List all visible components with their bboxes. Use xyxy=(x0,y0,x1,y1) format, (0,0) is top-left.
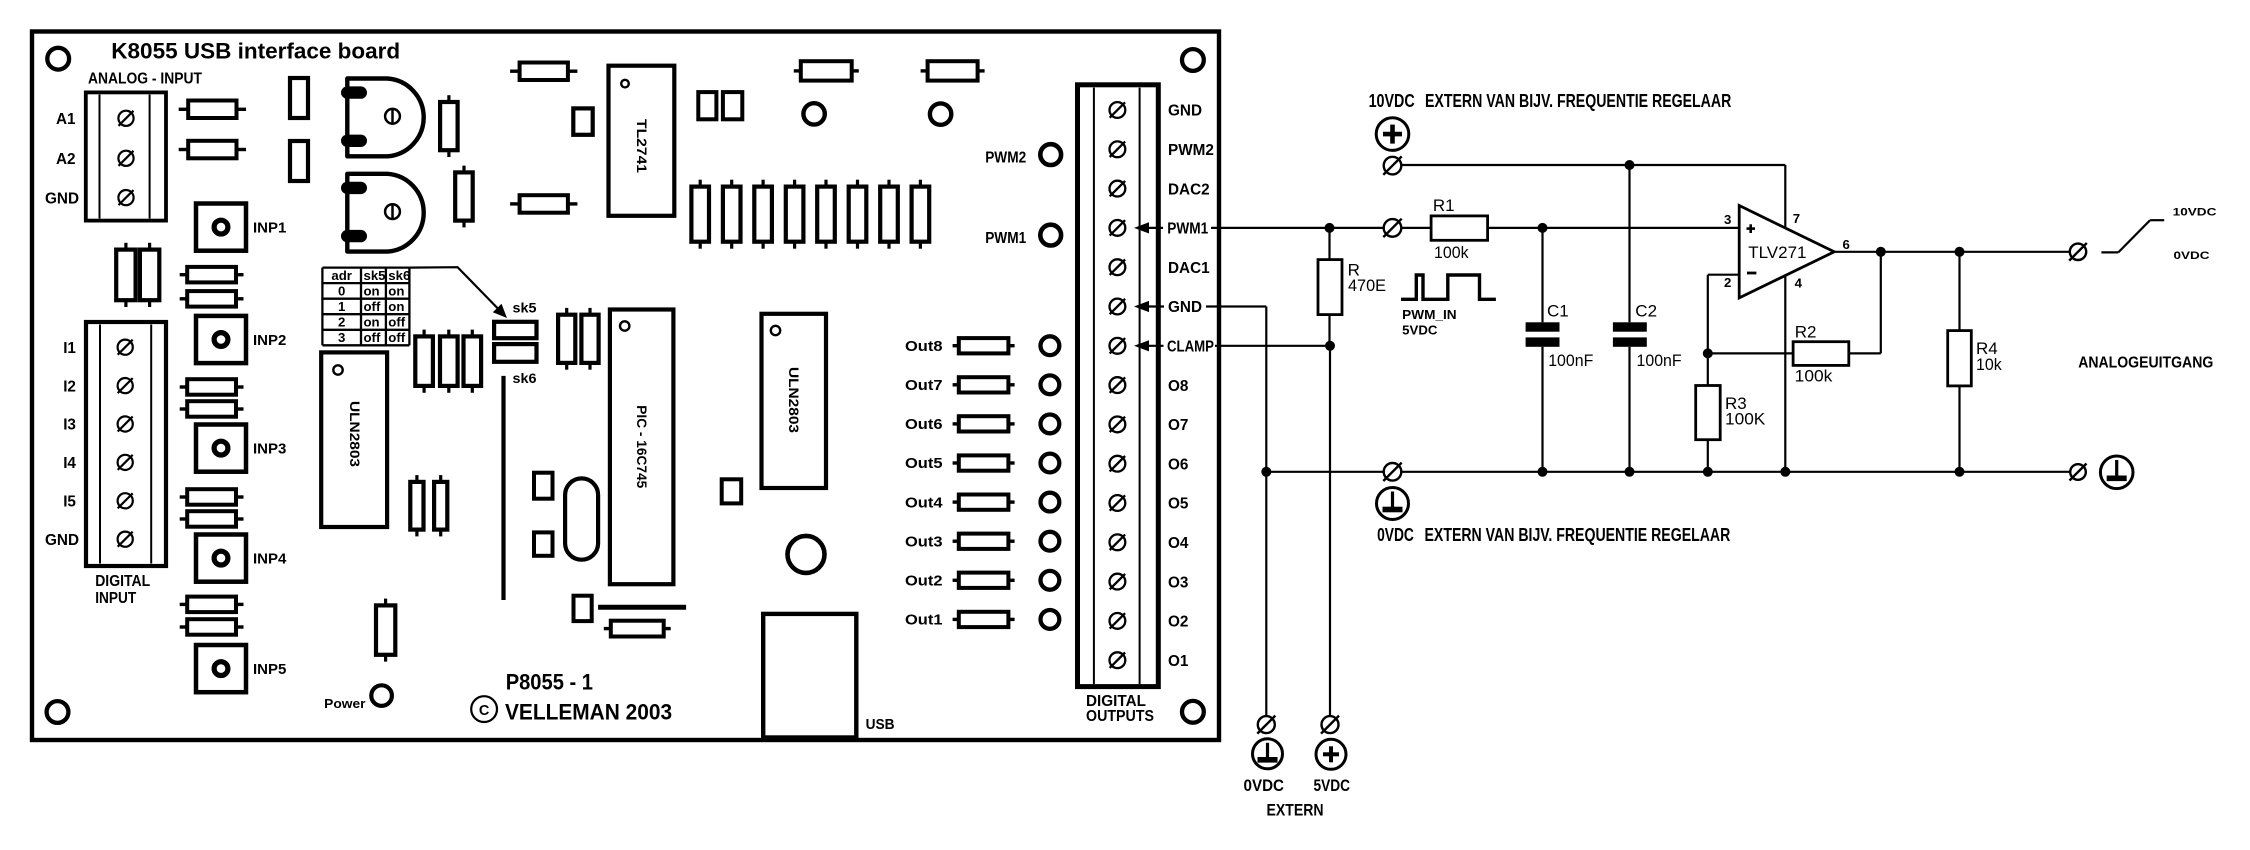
label PWM1 pad xyxy=(985,230,1026,247)
wire link bottom xyxy=(598,605,686,610)
resistor array top 7 xyxy=(880,180,898,249)
label 5VDC extern xyxy=(1314,776,1351,795)
wire PWM1 to schematic xyxy=(1134,219,1739,238)
label sk6 xyxy=(513,371,537,386)
resistor pair 1b xyxy=(180,291,244,307)
hole pad a xyxy=(803,103,824,124)
svg-text:2: 2 xyxy=(338,315,345,330)
svg-text:O5: O5 xyxy=(1168,496,1189,513)
label ANALOGEUITGANG xyxy=(2078,355,2213,372)
resistor top right b xyxy=(921,61,985,80)
svg-text:1: 1 xyxy=(338,299,345,314)
svg-text:O7: O7 xyxy=(1168,417,1188,434)
INP3 switch square xyxy=(196,425,246,472)
resistor array top 1 xyxy=(691,180,709,249)
DIGITAL OUTPUTS caption line1 xyxy=(1086,693,1146,710)
svg-text:GND: GND xyxy=(1168,299,1202,316)
label GND analog xyxy=(45,190,79,207)
terminal screw O3 output xyxy=(1110,574,1126,590)
junction PWM1-R470E xyxy=(1325,223,1335,233)
screw terminal output xyxy=(2069,243,2087,261)
label R2 xyxy=(1795,323,1833,386)
svg-text:O1: O1 xyxy=(1168,653,1189,670)
svg-text:PWM1: PWM1 xyxy=(985,230,1026,247)
svg-text:INP3: INP3 xyxy=(253,441,286,458)
wire CLAMP to 5VDC extern xyxy=(1134,337,1330,716)
label I4 digital input xyxy=(63,455,76,472)
terminal screw DAC2 output xyxy=(1110,181,1126,197)
svg-text:Out8: Out8 xyxy=(905,339,943,355)
svg-text:OUTPUTS: OUTPUTS xyxy=(1086,708,1154,725)
terminal screw A1 xyxy=(118,111,133,126)
svg-text:3: 3 xyxy=(338,330,345,345)
switch lever output xyxy=(2101,220,2164,252)
capacitor square a xyxy=(698,92,716,119)
svg-text:5VDC: 5VDC xyxy=(1402,323,1437,337)
terminal screw I3 digital xyxy=(118,416,133,431)
trimmer pot RV2 xyxy=(341,174,424,252)
svg-text:Power: Power xyxy=(324,697,365,711)
label terminal O5 xyxy=(1168,496,1189,513)
svg-text:DAC1: DAC1 xyxy=(1168,260,1210,277)
label terminal O8 xyxy=(1168,378,1189,395)
USB connector xyxy=(763,614,856,738)
svg-text:INP1: INP1 xyxy=(253,220,286,237)
svg-text:off: off xyxy=(364,299,381,314)
screw terminal rail 0VDC xyxy=(1383,463,1401,481)
screw terminal 5VDC extern xyxy=(1321,716,1339,734)
junction 10VDC-C2 xyxy=(1625,160,1635,170)
svg-text:sk5: sk5 xyxy=(364,268,386,283)
svg-text:R1: R1 xyxy=(1433,196,1455,215)
INP4 switch hole xyxy=(214,551,228,565)
terminal screw I1 digital xyxy=(118,340,133,355)
svg-text:Out3: Out3 xyxy=(905,534,943,550)
trimmer pot RV1 xyxy=(341,79,424,157)
address jumper table xyxy=(322,268,410,346)
resistor Out6 xyxy=(953,416,1015,431)
terminal screw CLAMP output xyxy=(1110,338,1126,354)
wire inverting input xyxy=(1708,275,1739,354)
svg-text:ANALOG - INPUT: ANALOG - INPUT xyxy=(88,71,203,88)
wire pin4 to rail xyxy=(1784,275,1786,471)
screw terminal 10VDC xyxy=(1383,156,1401,174)
label terminal O6 xyxy=(1168,456,1188,473)
terminal screw GND digital xyxy=(118,532,133,547)
svg-text:100nF: 100nF xyxy=(1548,351,1593,370)
copyright symbol xyxy=(471,696,497,722)
svg-text:Out4: Out4 xyxy=(905,495,943,511)
svg-text:DAC2: DAC2 xyxy=(1168,181,1210,198)
mounting hole top-right xyxy=(1182,49,1204,71)
svg-text:sk6: sk6 xyxy=(388,268,410,283)
label terminal DAC2 xyxy=(1168,181,1210,198)
junction GND-rail xyxy=(1261,467,1271,477)
svg-text:A1: A1 xyxy=(56,111,76,128)
label Out2 xyxy=(905,574,943,590)
svg-text:on: on xyxy=(388,299,404,314)
Power LED pad xyxy=(371,685,392,706)
jumper sk6 wire xyxy=(501,376,505,600)
svg-text:I3: I3 xyxy=(63,417,76,434)
label 0VDC EXTERN xyxy=(1377,524,1730,545)
resistor Out5 xyxy=(953,455,1015,470)
mounting hole bottom-left xyxy=(47,701,69,723)
svg-text:10VDC: 10VDC xyxy=(1369,90,1415,111)
terminal screw O5 output xyxy=(1110,495,1126,511)
label Out6 xyxy=(905,417,943,433)
LED Out7 xyxy=(1041,375,1060,394)
hole pad b xyxy=(930,103,951,124)
svg-text:GND: GND xyxy=(45,532,79,549)
label terminal PWM2 xyxy=(1168,142,1214,159)
svg-text:470E: 470E xyxy=(1348,276,1386,295)
label Out7 xyxy=(905,378,943,394)
jumper sk5 a xyxy=(494,322,536,338)
vertical resistor right of RV1 xyxy=(440,95,458,157)
svg-text:ULN2803: ULN2803 xyxy=(347,401,362,468)
svg-text:GND: GND xyxy=(45,190,79,207)
label P8055 - 1 xyxy=(506,670,593,695)
terminal screw GND output xyxy=(1110,299,1126,315)
svg-text:adr: adr xyxy=(331,268,352,283)
resistor mid pair b xyxy=(581,308,598,370)
resistor mid pair a xyxy=(558,308,575,370)
label 10VDC switch xyxy=(2173,206,2217,218)
resistor Out7 xyxy=(953,377,1015,392)
terminal screw GND output xyxy=(1110,102,1126,118)
resistor array top 8 xyxy=(912,180,930,249)
svg-text:on: on xyxy=(364,315,380,330)
svg-text:Out6: Out6 xyxy=(905,417,943,433)
DIGITAL OUTPUTS caption line2 xyxy=(1086,708,1154,725)
svg-text:on: on xyxy=(388,284,404,299)
svg-text:GND: GND xyxy=(1168,103,1202,120)
LED Out5 xyxy=(1041,454,1060,473)
LED Out1 xyxy=(1041,610,1060,629)
INP3 switch hole xyxy=(214,441,228,455)
resistor Out8 xyxy=(953,338,1015,353)
capacitor square b xyxy=(723,92,742,119)
label Out3 xyxy=(905,534,943,550)
INP2 switch square xyxy=(196,316,246,363)
label A2 xyxy=(56,151,76,168)
svg-text:on: on xyxy=(364,284,380,299)
ground symbol 0VDC extern xyxy=(1253,739,1283,769)
ground symbol rail xyxy=(1377,488,1409,520)
junction CLAMP-R470E xyxy=(1325,341,1335,351)
junction R3-rail xyxy=(1703,467,1713,477)
capacitor rect bottom xyxy=(574,596,592,621)
svg-text:100K: 100K xyxy=(1725,410,1766,429)
LED Out8 xyxy=(1041,336,1060,355)
junction feedback node xyxy=(1703,348,1713,358)
terminal screw analog GND xyxy=(118,190,133,205)
screw terminal PWM1 wire xyxy=(1383,219,1401,237)
terminal screw I5 digital xyxy=(118,493,133,508)
svg-text:PWM2: PWM2 xyxy=(1168,142,1214,159)
capacitor square mid xyxy=(722,479,742,503)
PWM_IN waveform symbol xyxy=(1401,275,1496,299)
svg-text:ULN2803: ULN2803 xyxy=(786,367,801,434)
svg-text:USB: USB xyxy=(866,716,895,733)
resistor mid top xyxy=(510,63,577,81)
svg-text:ANALOGEUITGANG: ANALOGEUITGANG xyxy=(2078,355,2213,372)
board title text xyxy=(111,39,400,64)
svg-text:VELLEMAN 2003: VELLEMAN 2003 xyxy=(505,699,672,724)
terminal screw DAC1 output xyxy=(1110,259,1126,275)
resistor A2 row xyxy=(179,141,246,159)
terminal screw O6 output xyxy=(1110,456,1126,472)
resistor array top 5 xyxy=(817,180,835,249)
svg-text:I1: I1 xyxy=(63,340,76,357)
digital input terminal block xyxy=(86,322,166,566)
svg-text:CLAMP: CLAMP xyxy=(1167,338,1214,355)
label EXTERN xyxy=(1267,801,1324,820)
svg-text:off: off xyxy=(364,330,381,345)
vertical resistor right of RV2 xyxy=(455,166,473,228)
terminal screw O8 output xyxy=(1110,377,1126,393)
capacitor C2 xyxy=(1613,165,1647,472)
junction R4-output xyxy=(1955,247,1965,257)
INP1 switch square xyxy=(196,204,246,251)
svg-text:100nF: 100nF xyxy=(1637,351,1682,370)
svg-text:Out1: Out1 xyxy=(905,613,943,629)
resistor R1 xyxy=(1431,216,1488,240)
LED Out4 xyxy=(1041,493,1060,512)
svg-text:EXTERN: EXTERN xyxy=(1267,801,1324,820)
resistor pair 2b xyxy=(180,401,244,417)
junction C1-rail xyxy=(1538,467,1548,477)
label C2 xyxy=(1635,302,1681,370)
terminal screw PWM1 output xyxy=(1110,220,1126,236)
svg-text:PWM1: PWM1 xyxy=(1167,221,1208,238)
svg-text:INPUT: INPUT xyxy=(95,590,137,607)
svg-text:Out5: Out5 xyxy=(905,456,943,472)
svg-text:6: 6 xyxy=(1843,237,1850,252)
resistor mid row a xyxy=(415,330,433,393)
terminal screw O2 output xyxy=(1110,613,1126,629)
svg-text:O6: O6 xyxy=(1168,456,1188,473)
svg-text:O2: O2 xyxy=(1168,614,1188,631)
label INP3 xyxy=(253,441,286,458)
wire 10VDC supply xyxy=(1401,165,1785,228)
label 5VDC pwm xyxy=(1402,323,1437,337)
svg-text:C1: C1 xyxy=(1547,302,1569,321)
capacitor C1 xyxy=(1526,228,1560,472)
svg-text:I5: I5 xyxy=(63,494,76,511)
label A1 xyxy=(56,111,76,128)
junction PWM1-C1 xyxy=(1538,223,1548,233)
plus symbol 5VDC extern xyxy=(1316,739,1346,769)
resistor pair 4a xyxy=(180,597,244,613)
junction pin4-rail xyxy=(1780,467,1790,477)
label USB xyxy=(866,716,895,733)
terminal screw O1 output xyxy=(1110,652,1126,668)
label GND digital input xyxy=(45,532,79,549)
svg-text:INP4: INP4 xyxy=(253,551,287,568)
label terminal DAC1 xyxy=(1168,260,1210,277)
resistor R2 xyxy=(1708,252,1881,366)
ground symbol rail end xyxy=(2100,456,2133,489)
junction R4-rail xyxy=(1955,467,1965,477)
resistor R4 xyxy=(1948,252,1972,472)
vertical resistor pair left b xyxy=(140,243,159,307)
svg-text:0VDC: 0VDC xyxy=(1244,776,1285,795)
svg-text:100k: 100k xyxy=(1795,367,1833,386)
jumper sk5 b xyxy=(494,344,536,362)
svg-text:100k: 100k xyxy=(1434,243,1469,262)
PCB board outline xyxy=(32,32,1219,741)
wire ground rail xyxy=(1266,471,2070,473)
digital outputs terminal block xyxy=(1078,85,1159,687)
arrow table to sk5 xyxy=(409,267,507,318)
resistor array top 2 xyxy=(723,180,741,249)
resistor R 470E xyxy=(1318,228,1342,346)
label I3 digital input xyxy=(63,417,76,434)
svg-text:Out2: Out2 xyxy=(905,574,943,590)
terminal screw I4 digital xyxy=(118,455,133,470)
svg-text:C: C xyxy=(479,703,490,719)
label 10VDC EXTERN title xyxy=(1369,90,1732,111)
label Out5 xyxy=(905,456,943,472)
PWM2 pad xyxy=(1040,144,1061,165)
capacitor rect mid xyxy=(573,108,592,134)
jumper rect top b xyxy=(290,141,308,181)
label I5 digital input xyxy=(63,494,76,511)
capacitor rect xtal b xyxy=(534,532,553,555)
resistor mid lower xyxy=(510,195,577,213)
label 0VDC switch xyxy=(2174,250,2210,262)
svg-text:10VDC: 10VDC xyxy=(2173,206,2217,218)
INP5 switch hole xyxy=(214,662,228,676)
label INP2 xyxy=(253,332,286,349)
IC ULN2803 second xyxy=(762,314,827,488)
resistor pair 3b xyxy=(180,511,244,527)
pad circle large xyxy=(788,536,825,573)
analog input terminal block xyxy=(86,92,166,220)
INP1 switch hole xyxy=(214,220,228,234)
resistor bottom single xyxy=(376,599,395,662)
svg-text:O4: O4 xyxy=(1168,535,1189,552)
op-amp U1 TLV271 xyxy=(1739,206,1834,298)
svg-text:TL2741: TL2741 xyxy=(634,119,649,174)
label terminal O4 xyxy=(1168,535,1189,552)
label R1 xyxy=(1433,196,1469,262)
label Out4 xyxy=(905,495,943,511)
label INP4 xyxy=(253,551,287,568)
svg-text:7: 7 xyxy=(1793,211,1800,226)
label terminal O3 xyxy=(1168,574,1188,591)
DIGITAL INPUT caption line1 xyxy=(95,573,150,590)
resistor Out2 xyxy=(953,573,1015,588)
svg-text:0: 0 xyxy=(338,284,345,299)
label PWM2 pad xyxy=(985,149,1026,166)
IC ULN2803 first xyxy=(321,352,387,527)
svg-text:5VDC: 5VDC xyxy=(1314,776,1351,795)
resistor array top 6 xyxy=(849,180,867,249)
resistor Out3 xyxy=(953,534,1015,549)
LED Out2 xyxy=(1041,571,1060,590)
LED Out6 xyxy=(1041,415,1060,434)
svg-text:2: 2 xyxy=(1724,275,1731,290)
svg-text:O8: O8 xyxy=(1168,378,1189,395)
label R3 xyxy=(1725,394,1766,429)
label sk5 xyxy=(513,300,537,315)
svg-text:A2: A2 xyxy=(56,151,76,168)
resistor below ULN a xyxy=(410,475,423,536)
resistor array top 3 xyxy=(754,180,772,249)
label INP5 xyxy=(253,661,286,678)
svg-text:DIGITAL: DIGITAL xyxy=(95,573,150,590)
resistor below ULN b xyxy=(434,475,447,536)
DIGITAL INPUT caption line2 xyxy=(95,590,137,607)
svg-text:0VDC: 0VDC xyxy=(2174,250,2210,262)
resistor mid row c xyxy=(464,330,482,393)
junction C2-rail xyxy=(1625,467,1635,477)
svg-text:P8055 - 1: P8055 - 1 xyxy=(506,670,593,695)
svg-text:off: off xyxy=(388,315,405,330)
svg-text:R2: R2 xyxy=(1795,323,1817,342)
resistor Out4 xyxy=(953,495,1015,510)
screw terminal rail end xyxy=(2070,464,2087,481)
resistor mid row b xyxy=(440,330,458,393)
label INP1 xyxy=(253,220,286,237)
svg-text:off: off xyxy=(388,330,405,345)
mounting hole top-left xyxy=(47,48,69,70)
wire GND to 0VDC extern xyxy=(1134,298,1266,716)
svg-text:K8055 USB interface board: K8055 USB interface board xyxy=(111,39,400,64)
svg-text:4: 4 xyxy=(1795,276,1803,291)
svg-text:INP2: INP2 xyxy=(253,332,286,349)
svg-text:O3: O3 xyxy=(1168,574,1188,591)
resistor top right a xyxy=(794,61,859,80)
mounting hole bottom-right xyxy=(1182,701,1204,723)
capacitor rect xtal a xyxy=(534,473,553,499)
wire op-amp output xyxy=(1834,251,2069,253)
resistor A1 row xyxy=(179,101,246,119)
svg-text:I4: I4 xyxy=(63,455,76,472)
LED Out3 xyxy=(1041,532,1060,551)
svg-text:PWM2: PWM2 xyxy=(985,149,1026,166)
resistor Out1 xyxy=(953,612,1015,627)
terminal screw I2 digital xyxy=(118,378,133,393)
resistor pair 1a xyxy=(180,267,244,283)
crystal X1 xyxy=(565,478,598,559)
label R 470E xyxy=(1348,261,1386,296)
svg-text:PWM_IN: PWM_IN xyxy=(1402,308,1456,322)
svg-text:INP5: INP5 xyxy=(253,661,286,678)
svg-text:Out7: Out7 xyxy=(905,378,943,394)
resistor array top 4 xyxy=(786,180,804,249)
label VELLEMAN 2003 xyxy=(505,699,672,724)
svg-text:sk5: sk5 xyxy=(513,300,537,315)
label I2 digital input xyxy=(63,378,76,395)
IC PIC 16C745 xyxy=(610,310,674,585)
label terminal O2 xyxy=(1168,614,1188,631)
terminal screw O7 output xyxy=(1110,417,1126,433)
pin 2 label xyxy=(1724,275,1731,290)
vertical resistor pair left a xyxy=(116,243,135,307)
10VDC plus source symbol xyxy=(1376,118,1409,151)
pin 7 label xyxy=(1793,211,1800,226)
label C1 xyxy=(1547,302,1593,370)
screw terminal 0VDC extern xyxy=(1257,716,1275,734)
svg-text:sk6: sk6 xyxy=(513,371,537,386)
jumper rect top a xyxy=(290,78,308,118)
svg-text:3: 3 xyxy=(1724,212,1731,227)
svg-text:EXTERN VAN BIJV. FREQUENTIE RE: EXTERN VAN BIJV. FREQUENTIE REGELAAR xyxy=(1425,524,1731,545)
